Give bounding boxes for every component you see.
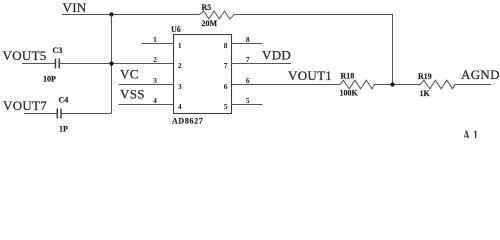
svg-text:U6: U6: [171, 25, 181, 34]
svg-text:7: 7: [246, 55, 250, 64]
sheet label A1: [463, 126, 478, 143]
svg-text:R18: R18: [341, 72, 355, 81]
wire VIN rail left of R5: [62, 14, 200, 16]
wire VOUT7 to C4: [24, 113, 57, 115]
junction dot VIN rail / vertical: [109, 12, 113, 16]
svg-text:VC: VC: [120, 67, 139, 82]
svg-text:8: 8: [246, 35, 250, 44]
svg-text:2: 2: [178, 61, 182, 70]
wire C3 to pin2: [60, 63, 174, 65]
wire C4 to vertical bus: [62, 113, 112, 115]
svg-text:AGND: AGND: [461, 67, 500, 82]
op-amp U6 AD8627 body: [174, 35, 232, 114]
svg-text:1: 1: [473, 126, 478, 138]
svg-text:A: A: [463, 126, 470, 138]
svg-text:6: 6: [224, 82, 228, 91]
svg-text:VDD: VDD: [262, 48, 291, 63]
wire R19 to AGND: [455, 84, 491, 86]
svg-text:20M: 20M: [202, 19, 218, 28]
svg-text:7: 7: [224, 61, 228, 70]
resistor R5: [200, 11, 235, 19]
resistor R18: [340, 80, 375, 89]
svg-text:VOUT5: VOUT5: [3, 48, 47, 63]
svg-text:VOUT1: VOUT1: [288, 68, 332, 83]
svg-text:1K: 1K: [420, 89, 431, 98]
wire pin 7 / VDD: [232, 63, 292, 65]
wire pin 5 stub: [232, 104, 263, 106]
wire pin 6 output: [232, 84, 340, 86]
svg-text:10P: 10P: [43, 75, 56, 84]
wire pin 4 / VSS: [119, 104, 175, 106]
svg-text:R5: R5: [202, 3, 212, 12]
svg-text:6: 6: [246, 76, 250, 85]
svg-text:1: 1: [153, 35, 157, 44]
svg-text:VIN: VIN: [63, 0, 87, 15]
wire R5 right to corner: [235, 15, 393, 85]
svg-text:4: 4: [153, 96, 157, 105]
svg-text:R19: R19: [418, 72, 432, 81]
svg-text:1: 1: [178, 41, 182, 50]
wire R18 to R19: [374, 84, 420, 86]
svg-text:5: 5: [224, 102, 228, 111]
svg-text:1P: 1P: [59, 124, 68, 133]
svg-text:4: 4: [178, 102, 182, 111]
svg-text:8: 8: [224, 41, 228, 50]
svg-text:AD8627: AD8627: [172, 116, 203, 125]
wire pin 3 / VC: [119, 84, 175, 86]
capacitor C4: [56, 109, 58, 119]
wire pin 8 stub: [232, 43, 263, 45]
wire vertical input bus x=111: [111, 15, 113, 114]
svg-text:C4: C4: [59, 96, 69, 105]
resistor R19: [420, 80, 455, 89]
svg-text:2: 2: [153, 55, 157, 64]
junction dot pin2 node: [109, 61, 113, 65]
svg-text:VSS: VSS: [120, 87, 145, 102]
capacitor C3: [55, 59, 57, 69]
wire pin 1 stub: [142, 43, 175, 45]
svg-text:3: 3: [153, 76, 157, 85]
svg-text:100K: 100K: [340, 89, 359, 98]
svg-text:5: 5: [246, 96, 250, 105]
wire VOUT5 to C3: [22, 63, 55, 65]
svg-text:C3: C3: [53, 46, 63, 55]
junction dot output node: [390, 82, 394, 86]
svg-text:3: 3: [178, 82, 182, 91]
svg-text:VOUT7: VOUT7: [3, 98, 47, 113]
